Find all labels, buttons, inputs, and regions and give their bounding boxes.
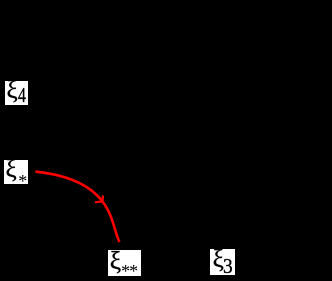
xi_3 subscript 3 <box>223 254 233 279</box>
node xi_* label box <box>4 160 28 185</box>
node xi_** label box <box>108 250 141 276</box>
xi_* subscript asterisk <box>18 171 27 192</box>
xi_4 subscript 4 <box>18 83 26 108</box>
xi_* glyph xi <box>6 156 17 184</box>
xi_4 glyph xi <box>7 77 18 105</box>
red trajectory curve from xi_* to xi_** <box>36 172 120 242</box>
node xi_4 label box <box>5 81 28 106</box>
xi_** glyph xi <box>110 246 121 276</box>
xi_** subscript asterisk 1 <box>121 261 130 281</box>
node xi_3 label box <box>210 249 235 275</box>
xi_** subscript asterisk 2 <box>129 261 138 281</box>
red arrowhead at curve midpoint <box>96 196 103 202</box>
xi_3 glyph xi <box>213 246 224 274</box>
